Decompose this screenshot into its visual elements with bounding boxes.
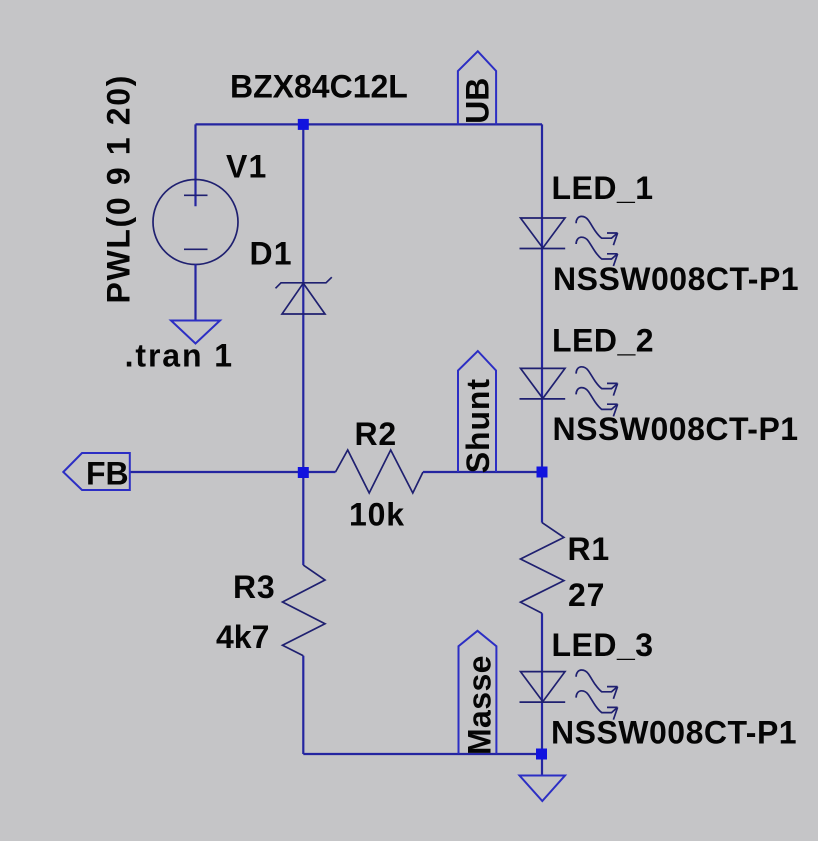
wire right rail upper xyxy=(541,124,543,522)
junction shunt xyxy=(537,467,548,478)
svg-text:V1: V1 xyxy=(226,149,268,185)
LED D2 LED_1 xyxy=(520,216,618,266)
svg-text:Masse: Masse xyxy=(462,655,498,755)
wire V1 top pin xyxy=(194,124,196,206)
svg-text:NSSW008CT-P1: NSSW008CT-P1 xyxy=(551,715,797,751)
ground bottom xyxy=(520,776,566,802)
wire left rail upper xyxy=(302,124,304,565)
resistor R1 xyxy=(521,523,564,614)
flag UB xyxy=(458,51,496,124)
wire top horizontal xyxy=(196,123,543,125)
wire left rail lower xyxy=(302,656,304,754)
svg-text:PWL(0 9 1 20): PWL(0 9 1 20) xyxy=(101,74,137,304)
LED D3 LED_2 xyxy=(520,367,618,417)
flag Masse xyxy=(459,631,497,754)
resistor R3 xyxy=(283,565,326,656)
svg-text:10k: 10k xyxy=(349,497,405,533)
voltage source V1 xyxy=(153,180,238,265)
flag Shunt xyxy=(458,351,496,472)
wire FB horizontal xyxy=(130,471,303,473)
zener diode D1 xyxy=(276,277,332,314)
wire R2 leads xyxy=(303,471,335,473)
svg-text:BZX84C12L: BZX84C12L xyxy=(230,68,408,104)
svg-text:Shunt: Shunt xyxy=(460,378,496,473)
wire V1 bottom pin xyxy=(194,264,196,320)
junction FB xyxy=(298,467,309,478)
svg-text:D1: D1 xyxy=(250,236,293,272)
junction bottom xyxy=(536,749,547,760)
ground V1 xyxy=(171,321,220,344)
svg-text:R3: R3 xyxy=(233,569,276,605)
svg-text:LED_2: LED_2 xyxy=(552,323,654,359)
resistor R2 xyxy=(336,450,424,493)
LED D4 LED_3 xyxy=(520,670,618,720)
flag FB xyxy=(63,453,130,490)
svg-text:.tran 1: .tran 1 xyxy=(125,338,234,374)
svg-text:R2: R2 xyxy=(355,416,398,452)
wire right rail lower xyxy=(541,613,543,775)
svg-text:NSSW008CT-P1: NSSW008CT-P1 xyxy=(553,261,799,297)
svg-text:R1: R1 xyxy=(568,531,611,567)
svg-text:NSSW008CT-P1: NSSW008CT-P1 xyxy=(553,411,799,447)
svg-text:UB: UB xyxy=(460,78,496,124)
svg-text:FB: FB xyxy=(86,456,129,492)
svg-text:LED_1: LED_1 xyxy=(552,170,654,206)
junction top xyxy=(298,119,309,130)
svg-text:LED_3: LED_3 xyxy=(552,627,654,663)
svg-text:27: 27 xyxy=(568,577,605,613)
wire bottom horizontal xyxy=(303,753,541,755)
svg-text:4k7: 4k7 xyxy=(216,619,269,655)
